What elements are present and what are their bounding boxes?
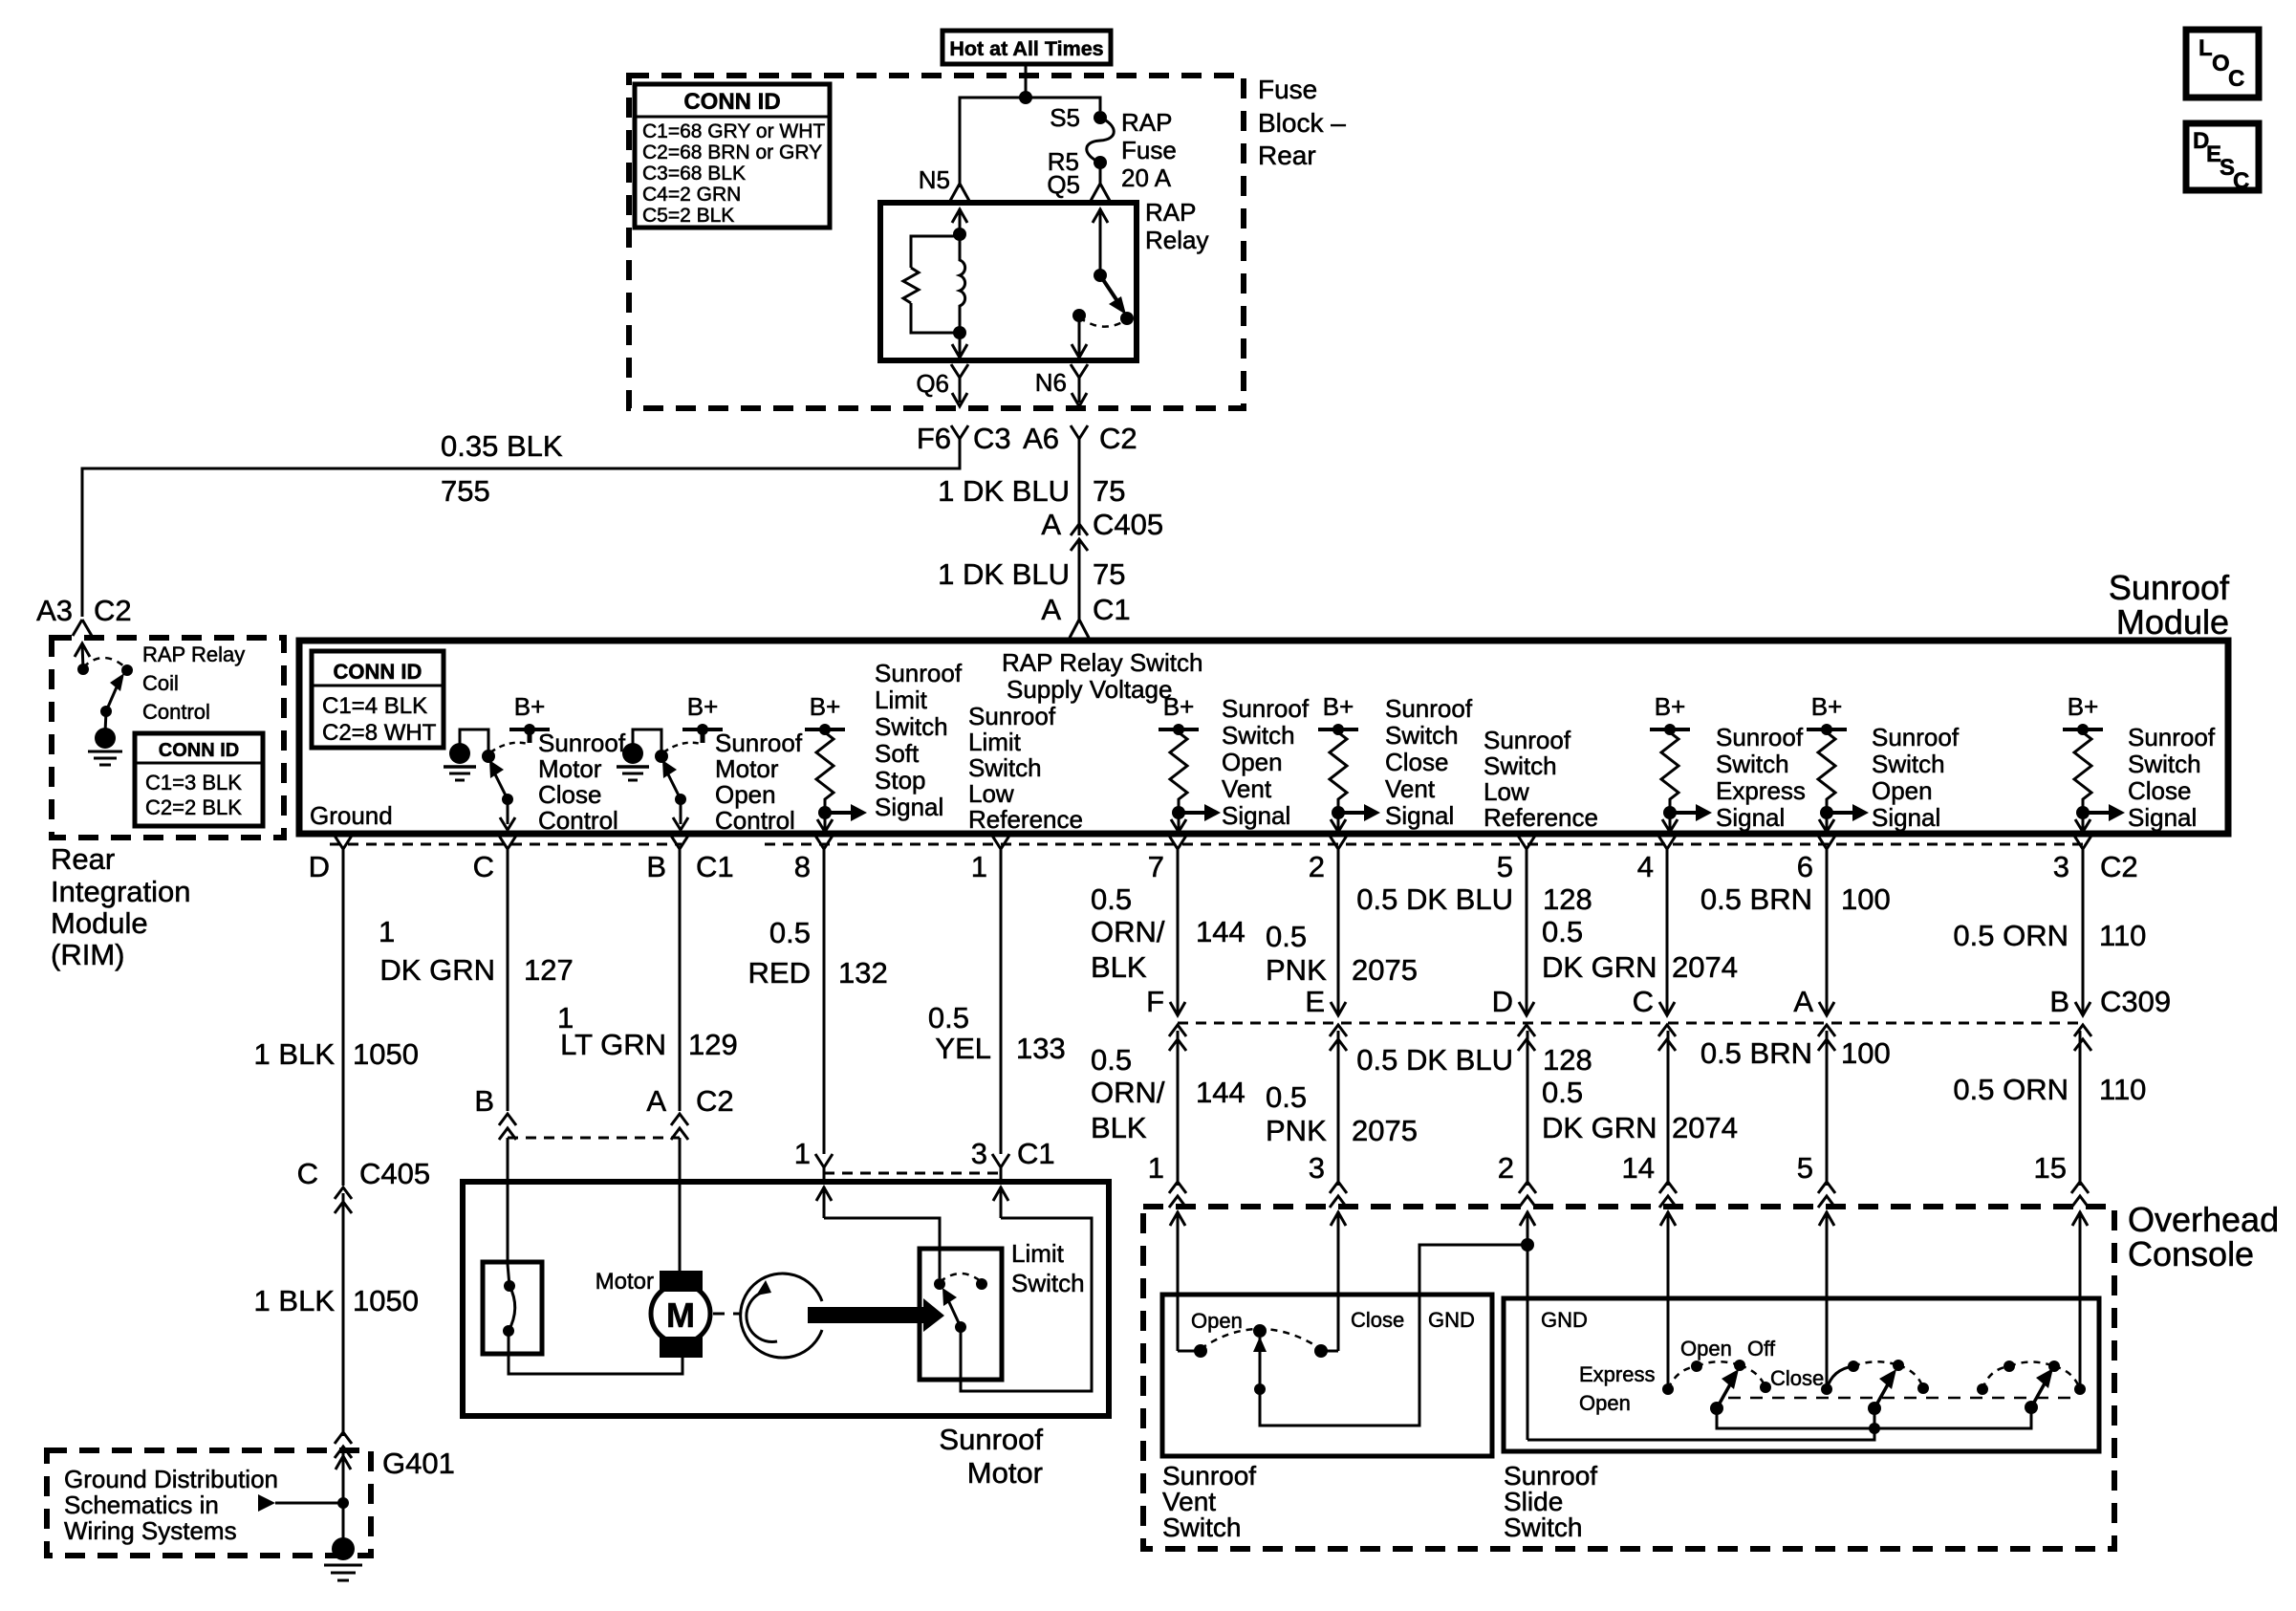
solid arc group2 close <box>1827 1366 1853 1389</box>
connector fork F6/C3 below fuse block <box>951 425 968 451</box>
svg-text:C: C <box>297 1157 318 1190</box>
connector G401 chevrons <box>335 1432 352 1458</box>
label 0.5 ORN/BLK 144 upper <box>1091 882 1245 984</box>
RAP relay coil control contact <box>77 664 89 675</box>
svg-text:A: A <box>1041 508 1061 541</box>
connector fork pin 4 <box>1658 836 1676 861</box>
svg-text:C1: C1 <box>1017 1137 1055 1170</box>
svg-text:Fuse: Fuse <box>1258 75 1317 104</box>
dashed throw arc limit switch <box>940 1274 982 1282</box>
svg-text:Open: Open <box>1191 1309 1243 1333</box>
switch arm RIM driver <box>106 673 124 711</box>
wire slide GND run <box>1527 1428 1874 1440</box>
svg-text:A6: A6 <box>1023 422 1059 455</box>
svg-text:Motor: Motor <box>967 1456 1043 1490</box>
svg-text:Supply Voltage: Supply Voltage <box>1007 675 1172 704</box>
svg-text:ORN/: ORN/ <box>1091 915 1165 948</box>
CONN ID table (fuse block) <box>635 84 830 228</box>
label RAP Relay <box>1145 198 1208 254</box>
svg-text:C1: C1 <box>696 850 734 883</box>
svg-text:0.5 BRN: 0.5 BRN <box>1700 1036 1812 1070</box>
wire N6 out of relay with down arrow <box>1072 316 1087 358</box>
wire N5 into relay with up arrow <box>952 208 967 234</box>
limit switch arm contact <box>955 1321 966 1333</box>
resistor pull-up close signal <box>2063 724 2125 832</box>
connector C309 chevrons wire F <box>1169 1025 1186 1051</box>
wire 15 into console with up arrow <box>2072 1211 2088 1388</box>
svg-text:L: L <box>2199 35 2213 61</box>
wire Q6 out of relay with down arrow <box>952 333 967 358</box>
node GND tap on wire 2 <box>1521 1238 1534 1252</box>
vent switch pivot contact <box>1253 1324 1267 1338</box>
connector chevrons console wire 14 <box>1659 1182 1677 1208</box>
label Sunroof Slide Switch <box>1504 1461 1597 1542</box>
label RAP Fuse 20 A <box>1121 108 1177 192</box>
label Sunroof Switch Open Signal <box>1872 723 1960 832</box>
wire Q5 into relay with up arrow <box>1093 208 1108 275</box>
svg-text:N5: N5 <box>919 165 950 194</box>
svg-text:Sunroof: Sunroof <box>2109 568 2230 607</box>
svg-text:RAP: RAP <box>1145 198 1196 227</box>
svg-text:Open: Open <box>1222 748 1283 776</box>
svg-text:0.5 ORN: 0.5 ORN <box>1953 919 2069 952</box>
svg-text:Open: Open <box>715 780 776 809</box>
switch: sunroof motor open control <box>617 724 723 830</box>
svg-text:CONN ID: CONN ID <box>159 740 239 761</box>
svg-text:Module: Module <box>51 906 148 940</box>
svg-text:129: 129 <box>688 1028 738 1061</box>
svg-text:C3=68 BLK: C3=68 BLK <box>642 163 746 185</box>
svg-text:B: B <box>2049 985 2069 1018</box>
label 1 DK BLU 75 lower <box>938 557 1125 591</box>
svg-text:Switch: Switch <box>2128 750 2201 778</box>
wire from Hot at All Times down <box>1025 64 1028 98</box>
svg-text:20 A: 20 A <box>1121 163 1172 192</box>
svg-text:C: C <box>2233 168 2249 194</box>
svg-text:C: C <box>1633 985 1654 1018</box>
node coil top <box>953 228 966 241</box>
svg-text:Close: Close <box>1385 748 1448 776</box>
svg-text:M: M <box>666 1295 695 1335</box>
wire 1 console lower segment <box>1177 1031 1180 1186</box>
svg-text:C3: C3 <box>973 422 1011 455</box>
limit switch pivot contact <box>934 1278 945 1290</box>
dashed arcs group1 <box>1668 1361 1765 1389</box>
svg-text:Close: Close <box>1351 1308 1404 1332</box>
connector fork pin 7 <box>1169 836 1186 861</box>
svg-text:Express: Express <box>1716 776 1806 805</box>
label Sunroof Module <box>2109 568 2230 642</box>
relay switch NO contact <box>1120 312 1134 325</box>
svg-text:144: 144 <box>1196 915 1245 948</box>
svg-text:CONN ID: CONN ID <box>334 660 422 684</box>
resistor pull-up soft stop signal <box>805 724 867 832</box>
DESC legend box <box>2186 123 2259 194</box>
svg-text:Switch: Switch <box>1011 1269 1085 1297</box>
resistor pull-up close vent signal <box>1318 724 1380 832</box>
svg-text:100: 100 <box>1841 882 1891 916</box>
relay suppression resistor <box>903 236 960 333</box>
svg-text:DK GRN: DK GRN <box>1542 1111 1657 1144</box>
svg-text:B+: B+ <box>2068 692 2099 721</box>
svg-text:C4=2 GRN: C4=2 GRN <box>642 184 741 206</box>
svg-text:Close: Close <box>538 780 601 809</box>
svg-text:3: 3 <box>1309 1151 1325 1185</box>
svg-text:Control: Control <box>142 700 210 724</box>
svg-text:Schematics in: Schematics in <box>64 1491 219 1519</box>
svg-text:Coil: Coil <box>142 671 179 695</box>
svg-text:15: 15 <box>2034 1151 2067 1185</box>
wire pin3 to limit switch throw <box>961 1218 1092 1391</box>
svg-text:Close: Close <box>2128 776 2191 805</box>
svg-text:0.5 DK BLU: 0.5 DK BLU <box>1356 1043 1513 1077</box>
svg-text:Stop: Stop <box>875 766 926 795</box>
moving contact RIM <box>121 664 133 676</box>
connector fork A6/C2 below fuse block <box>1071 425 1088 451</box>
Sunroof Slide Switch box <box>1504 1298 2099 1451</box>
label 0.5 DK BLU 128 upper <box>1356 882 1592 916</box>
svg-text:Soft: Soft <box>875 739 920 768</box>
label 0.5 PNK 2075 upper <box>1266 920 1418 987</box>
svg-text:RAP Relay Switch: RAP Relay Switch <box>1002 648 1203 677</box>
slide switch group2 contacts <box>1821 1360 1929 1395</box>
Sunroof Motor box <box>463 1182 1109 1416</box>
label RAP Relay Switch Supply Voltage <box>1002 648 1203 704</box>
connector fork pin 3 <box>2074 836 2091 861</box>
connector C405 chevrons on ground lead <box>335 1187 352 1213</box>
svg-text:B+: B+ <box>1811 692 1843 721</box>
relay coil <box>960 234 965 333</box>
label Rear Integration Module (RIM) <box>51 842 191 971</box>
wire 755 from F6 to RIM <box>82 451 960 617</box>
svg-text:1 BLK: 1 BLK <box>254 1284 336 1317</box>
wire 3 upper segment <box>2075 861 2090 1015</box>
svg-text:Console: Console <box>2128 1234 2254 1274</box>
svg-text:Signal: Signal <box>1222 801 1290 830</box>
svg-text:Switch: Switch <box>1162 1513 1241 1542</box>
wire 15 console lower segment <box>2079 1031 2082 1186</box>
svg-text:YEL: YEL <box>935 1032 991 1065</box>
connector fork pin 6 <box>1818 836 1835 861</box>
svg-text:Rear: Rear <box>1258 141 1316 170</box>
svg-text:B+: B+ <box>514 692 546 721</box>
svg-text:Sunroof: Sunroof <box>715 729 803 757</box>
svg-text:A: A <box>646 1084 666 1118</box>
svg-text:GND: GND <box>1428 1308 1475 1332</box>
wire into RIM with up arrow <box>75 643 90 669</box>
label 1 LT GRN 129 <box>557 1001 738 1061</box>
svg-text:Switch: Switch <box>968 753 1042 782</box>
wire 3 console lower segment <box>1337 1031 1340 1186</box>
svg-text:0.5: 0.5 <box>1266 1080 1307 1114</box>
wire to G401 ground <box>336 1453 351 1541</box>
drive shaft bar <box>808 1298 944 1332</box>
svg-text:Relay: Relay <box>1145 226 1208 254</box>
motor brush capsule <box>483 1262 542 1354</box>
svg-text:G401: G401 <box>382 1447 455 1480</box>
svg-text:C: C <box>473 850 494 883</box>
node S5 <box>1094 111 1107 124</box>
svg-text:0.5: 0.5 <box>1091 882 1132 916</box>
Ground Distribution dashed box <box>47 1450 371 1556</box>
Sunroof Vent Switch box <box>1162 1295 1492 1456</box>
label Sunroof Switch Open Vent Signal <box>1222 694 1310 830</box>
node junction on feed wire <box>1019 91 1032 104</box>
wire 5 console lower segment <box>1826 1031 1829 1186</box>
svg-text:Reference: Reference <box>968 805 1083 834</box>
wire 1 low reference to motor <box>1000 861 1003 1154</box>
svg-text:Control: Control <box>715 806 795 835</box>
label Express Open <box>1579 1362 1655 1415</box>
label 0.5 DK BLU 128 lower <box>1356 1043 1592 1077</box>
svg-text:O: O <box>2212 51 2230 76</box>
svg-text:Sunroof: Sunroof <box>538 729 626 757</box>
connector fork pin 2 <box>1330 836 1347 861</box>
svg-text:E: E <box>1305 985 1325 1018</box>
svg-text:Open: Open <box>1680 1337 1732 1361</box>
label Sunroof Switch Low Reference <box>1484 726 1598 832</box>
svg-text:1: 1 <box>379 915 395 948</box>
svg-text:DK GRN: DK GRN <box>1542 950 1657 984</box>
wire C into motor box <box>507 1138 509 1264</box>
connector fork pin 8 <box>815 836 833 861</box>
svg-text:B: B <box>646 850 666 883</box>
svg-text:Fuse: Fuse <box>1121 136 1177 164</box>
svg-text:C2: C2 <box>2100 850 2138 883</box>
wire brush to motor loop <box>509 1354 682 1374</box>
limit switch NC contact <box>976 1278 987 1290</box>
label 0.5 YEL 133 <box>928 1001 1066 1065</box>
svg-text:3: 3 <box>2053 850 2069 883</box>
svg-text:Sunroof: Sunroof <box>1385 694 1473 723</box>
svg-text:ORN/: ORN/ <box>1091 1076 1165 1109</box>
svg-text:C1: C1 <box>1093 593 1131 626</box>
connector C2 dashed line (motor) <box>508 1137 680 1140</box>
svg-text:Express: Express <box>1579 1362 1655 1386</box>
svg-text:755: 755 <box>441 474 490 508</box>
svg-text:Vent: Vent <box>1222 774 1272 803</box>
svg-text:1: 1 <box>1148 1151 1164 1185</box>
svg-text:Switch: Switch <box>875 712 948 741</box>
svg-text:132: 132 <box>838 956 888 990</box>
label Limit Switch <box>1011 1239 1085 1297</box>
node R5 <box>1094 156 1107 169</box>
svg-text:C2: C2 <box>1099 422 1137 455</box>
svg-text:8: 8 <box>794 850 811 883</box>
svg-text:Signal: Signal <box>875 793 943 821</box>
svg-text:Switch: Switch <box>1484 751 1557 780</box>
svg-text:CONN ID: CONN ID <box>683 89 780 115</box>
label A6 C2 <box>1023 422 1137 455</box>
CONN ID table (RIM) <box>135 733 263 826</box>
svg-text:Off: Off <box>1747 1337 1776 1361</box>
svg-text:Signal: Signal <box>1872 803 1940 832</box>
svg-text:LT GRN: LT GRN <box>560 1028 666 1061</box>
wire 4 upper segment <box>1659 861 1675 1015</box>
wire 1 into console with up arrow <box>1170 1211 1185 1351</box>
label 0.5 ORN 110 upper <box>1953 919 2146 952</box>
label 0.5 PNK 2075 lower <box>1266 1080 1418 1147</box>
wire 14 console lower segment <box>1667 1031 1670 1186</box>
label A C1 <box>1041 593 1130 626</box>
CONN ID table (module) <box>312 651 444 748</box>
svg-text:DK GRN: DK GRN <box>379 953 495 987</box>
node coil bottom <box>953 326 966 339</box>
connector C405 inline chevrons <box>1071 524 1088 551</box>
svg-text:1050: 1050 <box>353 1037 419 1071</box>
svg-text:Q5: Q5 <box>1047 170 1080 199</box>
svg-text:D: D <box>1492 985 1513 1018</box>
label F E D C A B C309 <box>1146 985 2171 1018</box>
slide switch group1 contacts <box>1662 1360 1771 1395</box>
svg-text:6: 6 <box>1797 850 1813 883</box>
svg-text:B+: B+ <box>1323 692 1354 721</box>
ground RIM <box>88 728 122 765</box>
svg-text:Overhead: Overhead <box>2128 1200 2279 1239</box>
svg-text:127: 127 <box>524 953 574 987</box>
svg-text:C405: C405 <box>359 1157 430 1190</box>
label Sunroof Motor <box>939 1423 1043 1490</box>
resistor pull-up express signal <box>1650 724 1712 832</box>
svg-text:1 DK BLU: 1 DK BLU <box>938 474 1070 508</box>
svg-text:110: 110 <box>2099 919 2146 952</box>
slide wiper 3 <box>2025 1368 2053 1414</box>
slide wiper 2 <box>1868 1369 1896 1428</box>
label 0.5 ORN 110 lower <box>1953 1073 2146 1106</box>
dashed arcs group3 <box>1982 1362 2080 1390</box>
slide switch group3 contacts <box>1977 1361 2086 1395</box>
svg-text:Limit: Limit <box>1011 1239 1065 1268</box>
svg-text:C2=8 WHT: C2=8 WHT <box>322 720 437 746</box>
connector fork N5 <box>950 184 969 201</box>
fuse RAP Fuse 20 A <box>1087 118 1115 163</box>
svg-text:0.5 BRN: 0.5 BRN <box>1700 882 1812 916</box>
wire GND branch to vent switch <box>1260 1245 1527 1426</box>
label Sunroof Motor Close Control <box>538 729 626 835</box>
slide wiper 1 <box>1710 1369 1739 1415</box>
svg-text:0.5: 0.5 <box>1266 920 1307 953</box>
label Overhead Console <box>2128 1200 2279 1274</box>
label Sunroof Limit Switch Soft Stop Signal <box>875 659 963 821</box>
svg-text:(RIM): (RIM) <box>51 938 124 971</box>
svg-text:BLK: BLK <box>1091 950 1147 984</box>
svg-text:C2: C2 <box>94 594 132 627</box>
label 0.5 DK GRN 2074 upper <box>1542 915 1738 984</box>
Overhead Console dashed box <box>1143 1207 2114 1549</box>
svg-text:Module: Module <box>2116 602 2229 642</box>
dashed throw arc vent switch <box>1201 1329 1321 1349</box>
RAP Relay box <box>880 203 1137 360</box>
svg-text:C2: C2 <box>696 1084 734 1118</box>
Fuse Block - Rear label <box>1258 75 1346 170</box>
svg-text:Motor: Motor <box>538 754 602 783</box>
motor M armature <box>651 1271 710 1358</box>
clutch disc <box>741 1274 822 1358</box>
svg-text:C5=2 BLK: C5=2 BLK <box>642 205 734 227</box>
svg-text:N6: N6 <box>1035 368 1067 397</box>
wire feed horizontal <box>960 98 1100 187</box>
connector chevrons motor C2 pin A <box>671 1114 688 1140</box>
svg-text:75: 75 <box>1093 474 1125 508</box>
svg-text:100: 100 <box>1841 1036 1891 1070</box>
wire 14 into console with up arrow <box>1660 1211 1676 1388</box>
label B A C2 (motor C2 row) <box>474 1084 733 1118</box>
svg-text:BLK: BLK <box>1091 1111 1147 1144</box>
svg-text:C: C <box>2228 66 2244 92</box>
svg-text:A3: A3 <box>36 594 73 627</box>
svg-text:D: D <box>309 850 330 883</box>
connector fork N6 <box>1071 364 1088 406</box>
svg-text:0.5: 0.5 <box>928 1001 969 1034</box>
label C C405 <box>297 1157 431 1190</box>
svg-text:Sunroof: Sunroof <box>1872 723 1960 751</box>
svg-text:C405: C405 <box>1093 508 1163 541</box>
svg-text:Open: Open <box>1872 776 1933 805</box>
label 1 DK GRN 127 <box>379 915 574 987</box>
connector chevrons motor C2 pin B <box>499 1114 516 1140</box>
svg-text:B+: B+ <box>687 692 719 721</box>
label Sunroof Limit Switch Low Reference <box>968 702 1083 834</box>
svg-text:A: A <box>1041 593 1061 626</box>
svg-text:Motor: Motor <box>715 754 779 783</box>
svg-text:B+: B+ <box>810 692 841 721</box>
mechanical gang dashed link <box>1728 1397 2074 1400</box>
LOC legend box <box>2186 30 2259 98</box>
svg-text:RAP: RAP <box>1121 108 1172 137</box>
label Sunroof Motor Open Control <box>715 729 803 835</box>
dashed shaft link motor to clutch <box>713 1313 740 1316</box>
svg-text:Low: Low <box>968 779 1014 808</box>
svg-text:B+: B+ <box>1163 692 1195 721</box>
label 0.5 RED 132 <box>748 916 888 990</box>
svg-text:5: 5 <box>1497 850 1513 883</box>
svg-text:0.5: 0.5 <box>1542 1076 1583 1109</box>
svg-text:Switch: Switch <box>1222 721 1295 750</box>
svg-text:Vent: Vent <box>1385 774 1436 803</box>
resistor pull-up open signal <box>1807 724 1869 832</box>
switch: sunroof motor close control <box>444 724 550 830</box>
wire D ground lead <box>342 861 345 1186</box>
svg-text:144: 144 <box>1196 1076 1245 1109</box>
svg-text:Limit: Limit <box>875 686 928 714</box>
svg-text:Sunroof: Sunroof <box>2128 723 2216 751</box>
svg-text:F: F <box>1146 985 1164 1018</box>
svg-text:B+: B+ <box>1655 692 1686 721</box>
connector chevrons console wire 2 <box>1519 1182 1536 1208</box>
svg-text:C1=3 BLK: C1=3 BLK <box>145 771 242 795</box>
relay switch N6 contact <box>1072 309 1086 322</box>
svg-text:Limit: Limit <box>968 728 1022 756</box>
svg-text:2074: 2074 <box>1672 1111 1738 1144</box>
connector C309 chevrons wire D <box>1518 1025 1535 1051</box>
wire to ground RIM <box>105 711 106 732</box>
wire 8 soft stop to motor <box>823 861 826 1154</box>
wire 6 upper segment <box>1819 861 1834 1015</box>
limit switch box <box>920 1249 1002 1380</box>
svg-text:Sunroof: Sunroof <box>1716 723 1804 751</box>
svg-text:3: 3 <box>971 1137 987 1170</box>
svg-text:7: 7 <box>1148 850 1164 883</box>
label Sunroof Switch Express Signal <box>1716 723 1806 832</box>
connector fork pin B <box>671 836 688 861</box>
vent switch wiper arrow <box>1253 1337 1267 1395</box>
connector fork Q5 <box>1091 184 1110 201</box>
label F6 C3 <box>917 422 1011 455</box>
svg-text:C1=68 GRY or WHT: C1=68 GRY or WHT <box>642 120 825 142</box>
svg-text:Switch: Switch <box>1385 721 1459 750</box>
svg-text:0.5: 0.5 <box>769 916 811 949</box>
label Sunroof Switch Close Vent Signal <box>1385 694 1473 830</box>
